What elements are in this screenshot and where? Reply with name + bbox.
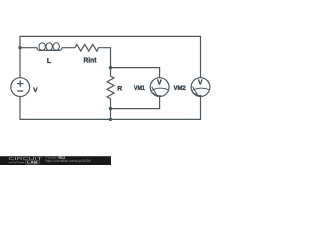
- svg-text:Rint: Rint: [84, 58, 98, 65]
- svg-text:V: V: [33, 87, 38, 94]
- svg-text:LAB: LAB: [27, 161, 39, 165]
- svg-text:http://circuitlab.com/c/p3k29k: http://circuitlab.com/c/p3k29k: [46, 159, 91, 163]
- svg-text:VM2: VM2: [174, 85, 187, 92]
- svg-text:V: V: [198, 79, 203, 86]
- svg-text:V: V: [157, 79, 162, 86]
- svg-text:L: L: [47, 58, 52, 65]
- svg-text:VM1: VM1: [134, 85, 145, 92]
- svg-text:R: R: [117, 85, 122, 92]
